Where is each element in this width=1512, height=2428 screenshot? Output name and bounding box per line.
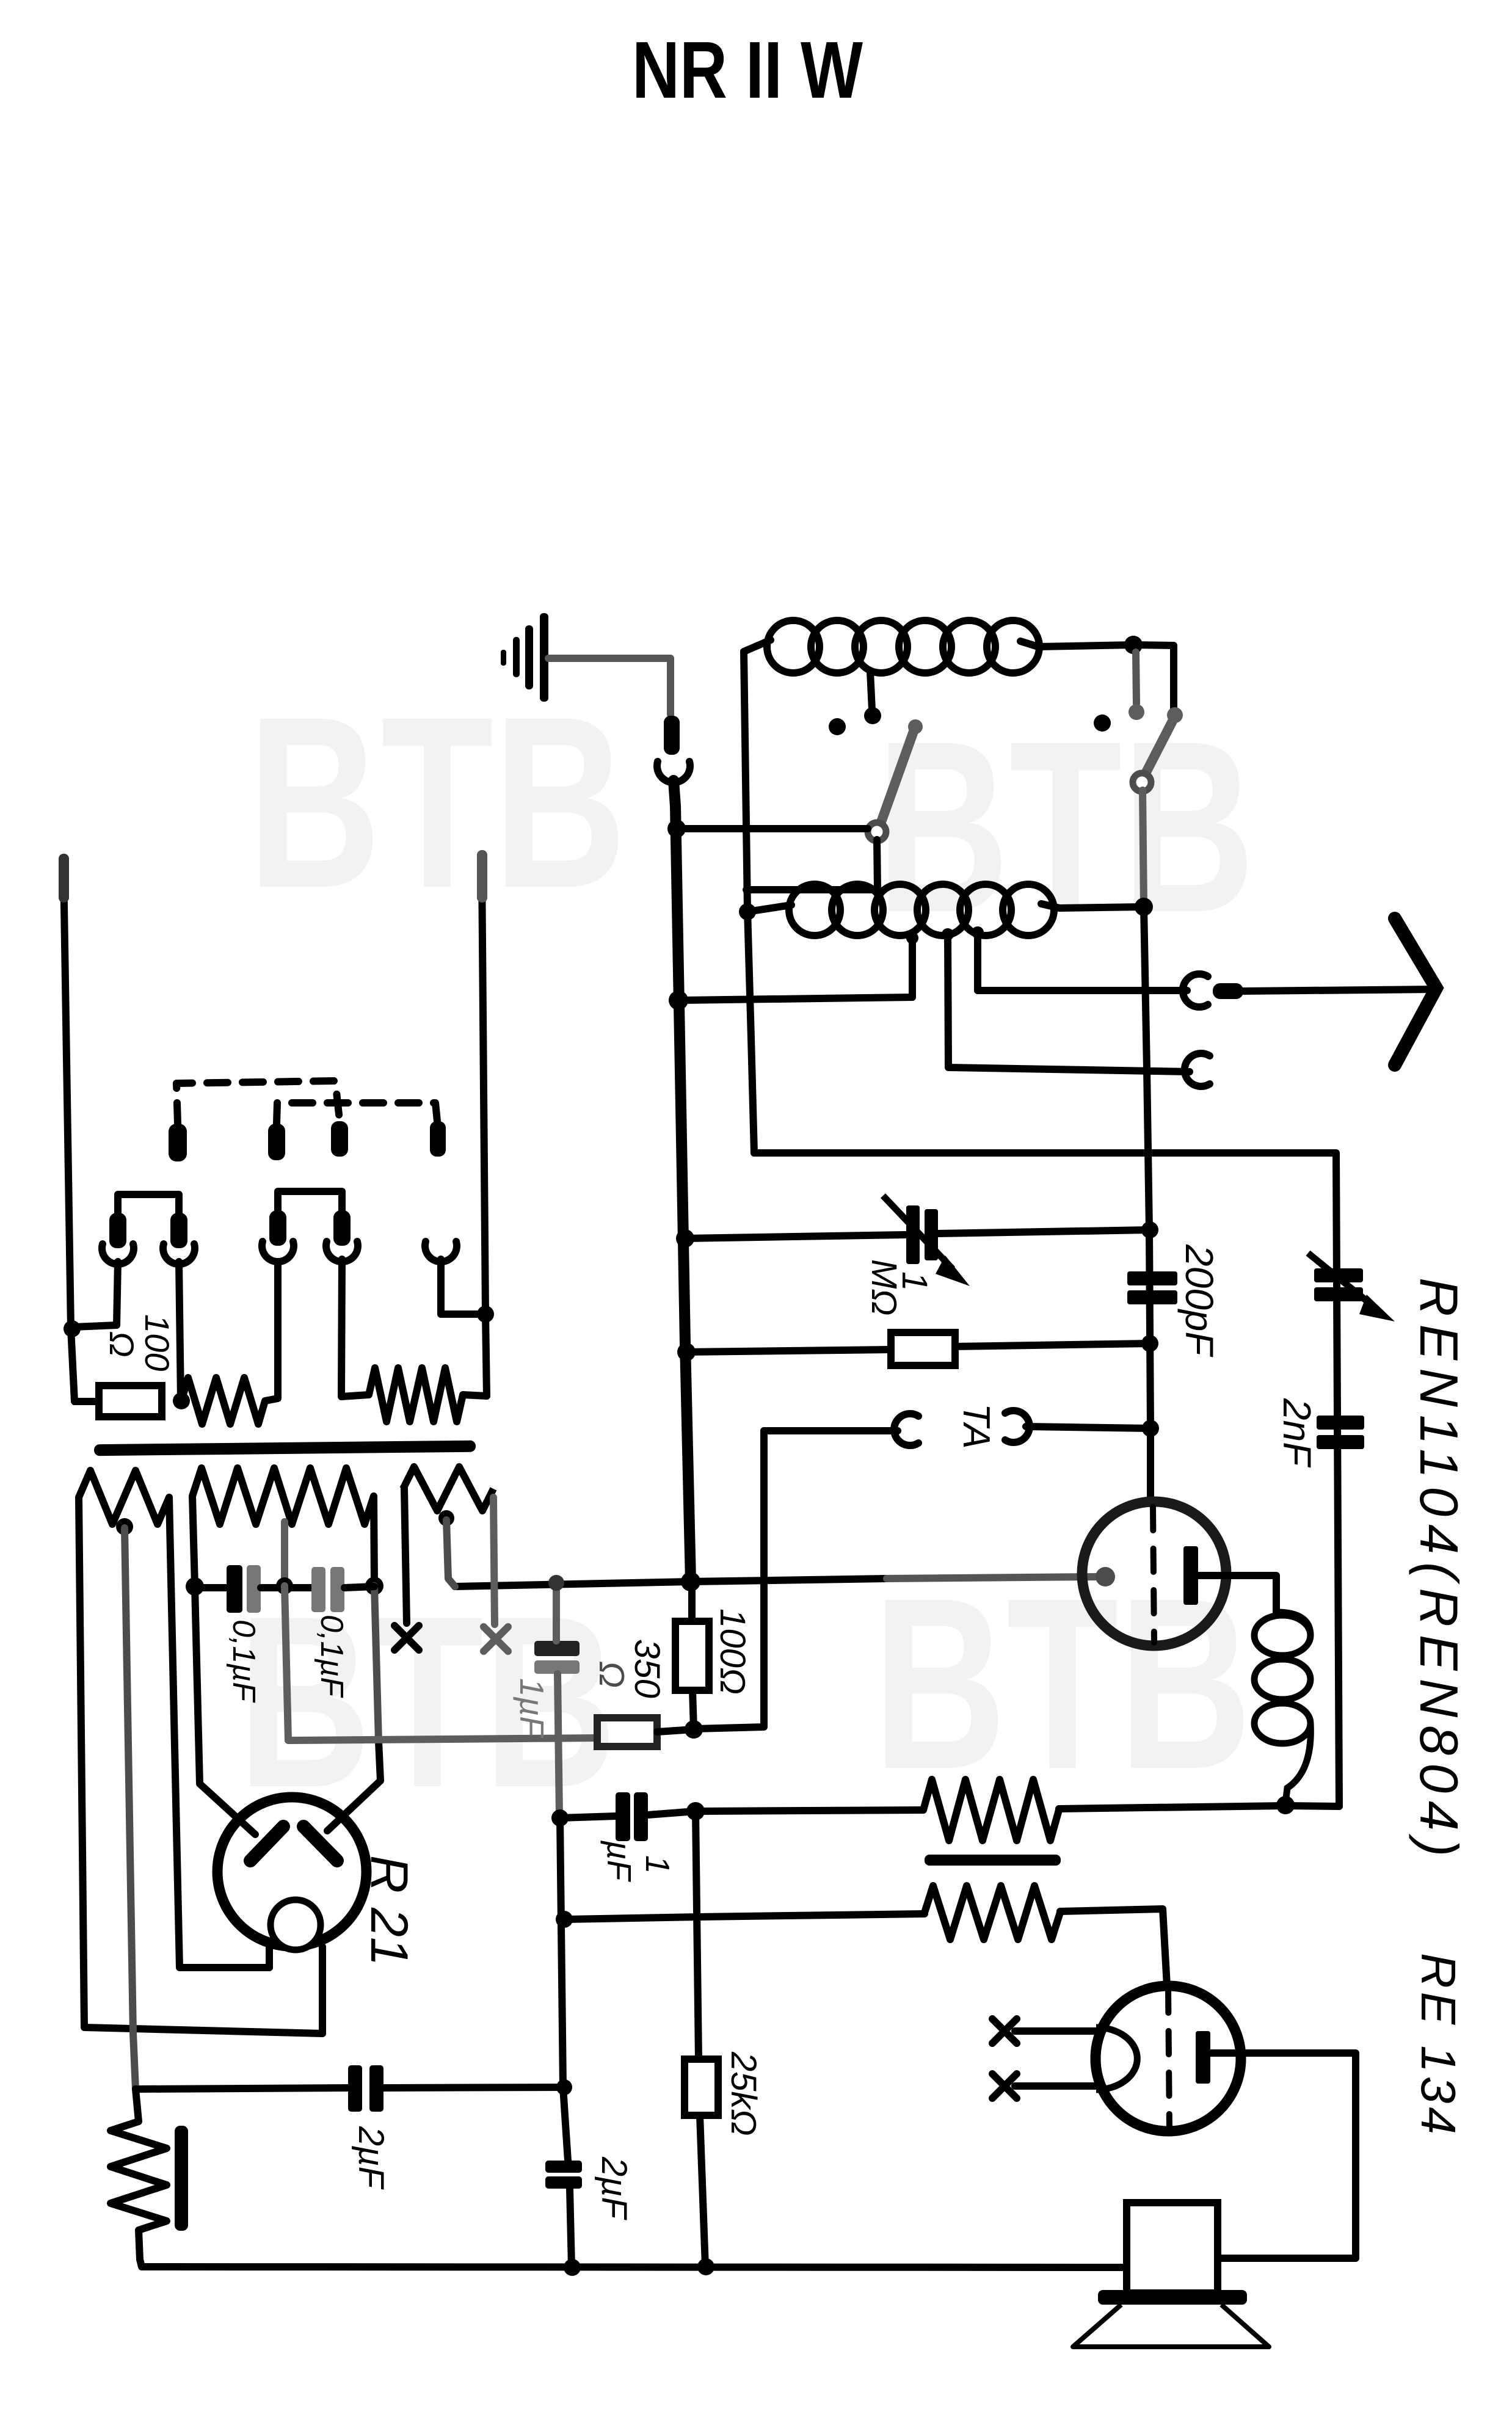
wire antenna lead [1243,989,1434,991]
tube V3 filament loop [271,1900,321,1950]
svg-text:MΩ: MΩ [864,1259,904,1315]
resistor R-25k box [685,2059,718,2115]
svg-text:RE 134: RE 134 [1411,1953,1466,2138]
resistor R-z2 [369,1368,463,1422]
x mark X1 [992,2019,1017,2043]
wire Ra left down [79,1497,322,2034]
wire long horizontal to right [754,1153,1339,1806]
plug U1 [169,1124,187,1161]
wire 25k down [700,2115,705,2267]
pin tip right [477,850,487,903]
switch S2 pivot [1133,773,1151,791]
capacitor C-2uF horizontal [348,2065,362,2112]
wire supply to transformer [696,1810,923,1811]
wire Rc tap to detector node [446,1520,455,1587]
wire rheostat top [136,2089,139,2121]
tube V1 REN1104 envelope [1082,1502,1226,1646]
resistor R-100ohm box [99,1386,162,1417]
pin tip left [59,854,69,903]
svg-text:100Ω: 100Ω [713,1608,752,1695]
svg-text:350: 350 [627,1639,667,1698]
svg-text:REN1104(REN804): REN1104(REN804) [1409,1278,1469,1864]
junction heater tap [556,2079,572,2095]
wire coil2 left lead [747,905,791,912]
wire trimmer C3 [685,1235,905,1238]
junction 2uF bottom [564,2259,581,2276]
wire secondary left [566,1914,925,1919]
wire filament X2 [1015,2082,1097,2090]
wire grey cathode bus [285,1586,596,1740]
wire filament X1 [1015,2027,1097,2035]
rheostat R-heat [111,2121,167,2230]
junction trimmer wire [1141,1221,1158,1238]
wire R21 right electrode grey [374,1586,379,1742]
switch S1 lever tip [908,719,923,734]
wire coil1 tap stem [870,672,872,710]
resistor R-a [79,1470,169,1524]
tube V1 anode bar [1183,1546,1198,1605]
switch S2 lever tip [1167,707,1183,723]
jack TA-right [1005,1411,1030,1442]
tube V2 filament arc [1096,2027,1137,2090]
wire Rb left down [192,1496,195,1585]
jack JL2 [163,1244,195,1264]
inductor L1 antenna coil [767,620,820,673]
capacitor C-1uF grey plates [534,1641,580,1656]
wire supply row2 [648,1811,696,1815]
capacitor C-01b plates [311,1567,325,1612]
transformer T1 secondary [925,1886,1060,1939]
trimmer capacitor C4 plates [1314,1268,1363,1282]
wire 2uF h right [383,2087,564,2088]
wire grid leak right [955,1343,1150,1347]
jack J-ant [657,761,690,782]
wire detector node to grid [691,1579,887,1582]
tube V1 grid dashed [1153,1507,1154,1643]
x mark X2 [992,2074,1017,2098]
wire Ra tap down grey [125,1528,136,2089]
wire TA stub down [696,1431,764,1729]
wire coil2 tap2 to jack [948,933,1190,1072]
plug P1 antenna [1213,983,1243,999]
wire 2uF column [560,1818,568,2161]
svg-text:1µF: 1µF [513,1678,551,1739]
jack JL5 [425,1241,457,1262]
capacitor C-1uF black [616,1792,630,1841]
junction 100ohm right [173,1392,190,1409]
wire supply row [560,1816,616,1818]
wire coil1 contact stem grey [1136,652,1136,703]
inductor L2 secondary coil [789,884,840,936]
wire TA left [764,1427,898,1434]
panel separator bar [94,1441,476,1456]
wire grid leak left [686,1350,891,1352]
svg-text:2nF: 2nF [1275,1398,1319,1468]
junction coil2-right main node [1135,898,1153,916]
wire secondary right [1060,1909,1167,1986]
wire V1 anode lead [1198,1576,1276,1612]
svg-text:Ω: Ω [103,1331,141,1358]
junction 25k bottom [697,2258,714,2275]
plug P-ant [664,716,680,755]
junction supply left [551,1809,569,1826]
x mark left [394,1626,419,1650]
junction coil1-right [1124,636,1143,654]
plug U4 [430,1121,446,1157]
trimmer C3 arrow [883,1196,953,1269]
wire S2 pivot down [1143,790,1144,906]
wire 2uF down [570,2189,572,2267]
capacitor C-01a plates [227,1565,242,1613]
wire grid lead grey [887,1577,1099,1579]
wire coil2 tap1 to bus [680,937,912,1000]
svg-text:100: 100 [138,1314,176,1371]
tap blob coil2-1 [906,932,918,944]
wire left pin column [64,867,99,1401]
wire Rc right down grey [493,1497,495,1624]
wire 100ohm bottom [692,1690,694,1729]
wire trimmer to grid node [938,1230,1150,1234]
tube V2 anode bar [1196,2031,1210,2084]
resistor R-b [192,1468,374,1524]
tube V3 electrode left [250,1826,283,1861]
wire coil1 right lead [1020,641,1133,647]
trimmer capacitor C3 plates [906,1205,920,1264]
speaker magnet bar [1098,2290,1247,2305]
wire z1 to JL3 [265,1262,278,1401]
contact dot S1-B [864,707,881,724]
tube V3 electrode right [303,1826,337,1861]
capacitor C5 2nF [1317,1416,1364,1430]
capacitor C-2uF vertical [545,2161,582,2173]
svg-text:0,1µF: 0,1µF [314,1615,349,1698]
svg-text:200pF: 200pF [1177,1244,1221,1358]
speaker cone [1073,2305,1269,2347]
svg-text:BTB: BTB [876,690,1255,963]
wire coil2 right lead [1041,904,1144,908]
speaker frame [1127,2203,1218,2293]
wire S1 pivot down-left [746,840,878,890]
junction TA right [1142,1420,1159,1437]
wire 350 to junction [657,1729,694,1732]
contact dot S2-E [1094,714,1111,732]
svg-text:2µF: 2µF [594,2156,634,2221]
junction secondary left [556,1911,573,1928]
jack J1 antenna [1183,974,1208,1007]
wire arch L1-L2 [118,1194,179,1215]
wire bus to S1 pivot [680,825,868,832]
svg-text:2µF: 2µF [351,2126,391,2190]
wire main vertical to V1 grid [1144,907,1150,1503]
contact dot S1-A [829,718,846,735]
tube V3 R21 envelope [217,1797,366,1946]
tube V2 grid dashed [1168,1990,1169,2129]
junction supply mid [686,1802,705,1820]
wire Rb right down [374,1496,374,1585]
junction grid-leak right [1141,1335,1158,1352]
inductor L3 reaction coil [1254,1615,1310,1656]
plug U3 [331,1121,348,1157]
trimmer C4 arrow [1308,1253,1374,1307]
wire vertical coil link [744,652,754,1153]
wire main bus [674,780,691,1581]
wire z2 to right column [463,1395,487,1396]
svg-text:Ω: Ω [592,1661,631,1688]
wire Rb tap grey [281,1522,288,1585]
wire cap row 3 [344,1587,374,1588]
wire U2 dashed link [277,1103,437,1124]
jack TA-left [894,1414,918,1445]
wire 1uF top grey [553,1585,560,1641]
junction Rb right [365,1577,383,1595]
switch S1 lever [878,730,914,831]
wire R21 right electrode [327,1742,380,1831]
plug U2 [268,1124,285,1160]
wire rheostat bottom [139,2230,1127,2267]
wire detector node left [455,1582,691,1587]
switch S2 lever [1142,718,1174,780]
resistor R-100 cathode box [675,1621,709,1690]
junction left column [64,1320,81,1337]
svg-text:R 21: R 21 [360,1855,418,1966]
tube V2 RE134 envelope [1096,1986,1241,2131]
x mark right grey [484,1627,508,1651]
wire primary to reaction [1059,1806,1285,1809]
jack JL3 [262,1241,294,1262]
resistor R-z1 [181,1378,265,1424]
contact dot S2-D [1129,704,1144,720]
junction bus-coil2tap [669,990,688,1010]
svg-text:TA: TA [955,1403,997,1449]
junction bus-detector node [681,1572,700,1591]
transformer T1 core [925,1855,1061,1866]
wire 100ohm top [688,1582,696,1621]
capacitor C 200pF [1127,1271,1177,1285]
wire JL4 down [341,1259,369,1397]
tube V1 grid dot [1096,1567,1115,1587]
wire heater branch [136,2088,348,2089]
antenna symbol [1395,918,1436,1065]
junction Ra tap [116,1518,133,1535]
plug L4 [333,1210,351,1246]
junction right column [477,1306,494,1323]
junction 1uF top [548,1575,564,1591]
plug L1 [109,1213,126,1248]
junction 100ohm bottom [685,1720,703,1739]
junction coil2-left [739,903,756,920]
plug L3 [269,1210,286,1246]
wire grid R21 left [195,1587,255,1834]
wire V2 anode [1210,2053,1356,2258]
svg-text:25kΩ: 25kΩ [724,2051,763,2136]
wire Rc left down to x [404,1489,407,1623]
wire JL1 down [73,1262,118,1327]
plug L2 [170,1213,187,1248]
wire arch L3-L4 [278,1191,342,1213]
rheostat slider bar [175,2126,188,2231]
wire JL5 to column [441,1259,485,1314]
ground symbol [540,613,548,702]
junction bus-sw1 [667,820,686,838]
wire Ra right down [169,1497,269,1968]
junction Rc tap [438,1510,454,1526]
switch S1 pivot [868,823,886,841]
resistor R-350 box [597,1718,657,1746]
wire ground to antenna jack [548,658,671,714]
transformer T1 primary [923,1779,1059,1841]
junction bus-trimmer wire [676,1229,694,1248]
resistor R-gridleak 1MOhm [891,1332,955,1365]
junction reaction coil bottom [1276,1796,1295,1814]
wire 25k column [696,1811,699,2059]
tap blob coil2-3 [972,926,984,939]
wire coil1 to switch S2 feed [1133,645,1174,713]
wire U1 dashed link [176,1081,340,1124]
junction cap row mid [276,1577,293,1594]
jack J2 spare [1185,1053,1210,1086]
jack JL1 [102,1244,134,1264]
wire cap row 1 [195,1584,227,1591]
jack JL4 [326,1241,358,1262]
wire right pin column [482,867,487,1396]
wire TA right [1026,1427,1150,1428]
resistor R-c [403,1467,493,1511]
wire cap row 2 [261,1584,311,1591]
junction bus-grid leak [677,1343,696,1361]
tap blob coil2-2 [942,928,954,940]
wire coil1 left lead [744,640,771,652]
junction Rb left [186,1577,204,1596]
svg-text:µF: µF [600,1840,638,1883]
wire 1uF bottom grey [558,1674,559,1816]
wire JL2 down [179,1262,181,1401]
wire coil2 tap3 to antenna jack [978,931,1187,990]
svg-text:BTB: BTB [248,666,627,939]
svg-text:0,1µF: 0,1µF [226,1619,261,1703]
svg-text:NR II W: NR II W [632,25,863,115]
svg-text:1: 1 [639,1855,677,1874]
